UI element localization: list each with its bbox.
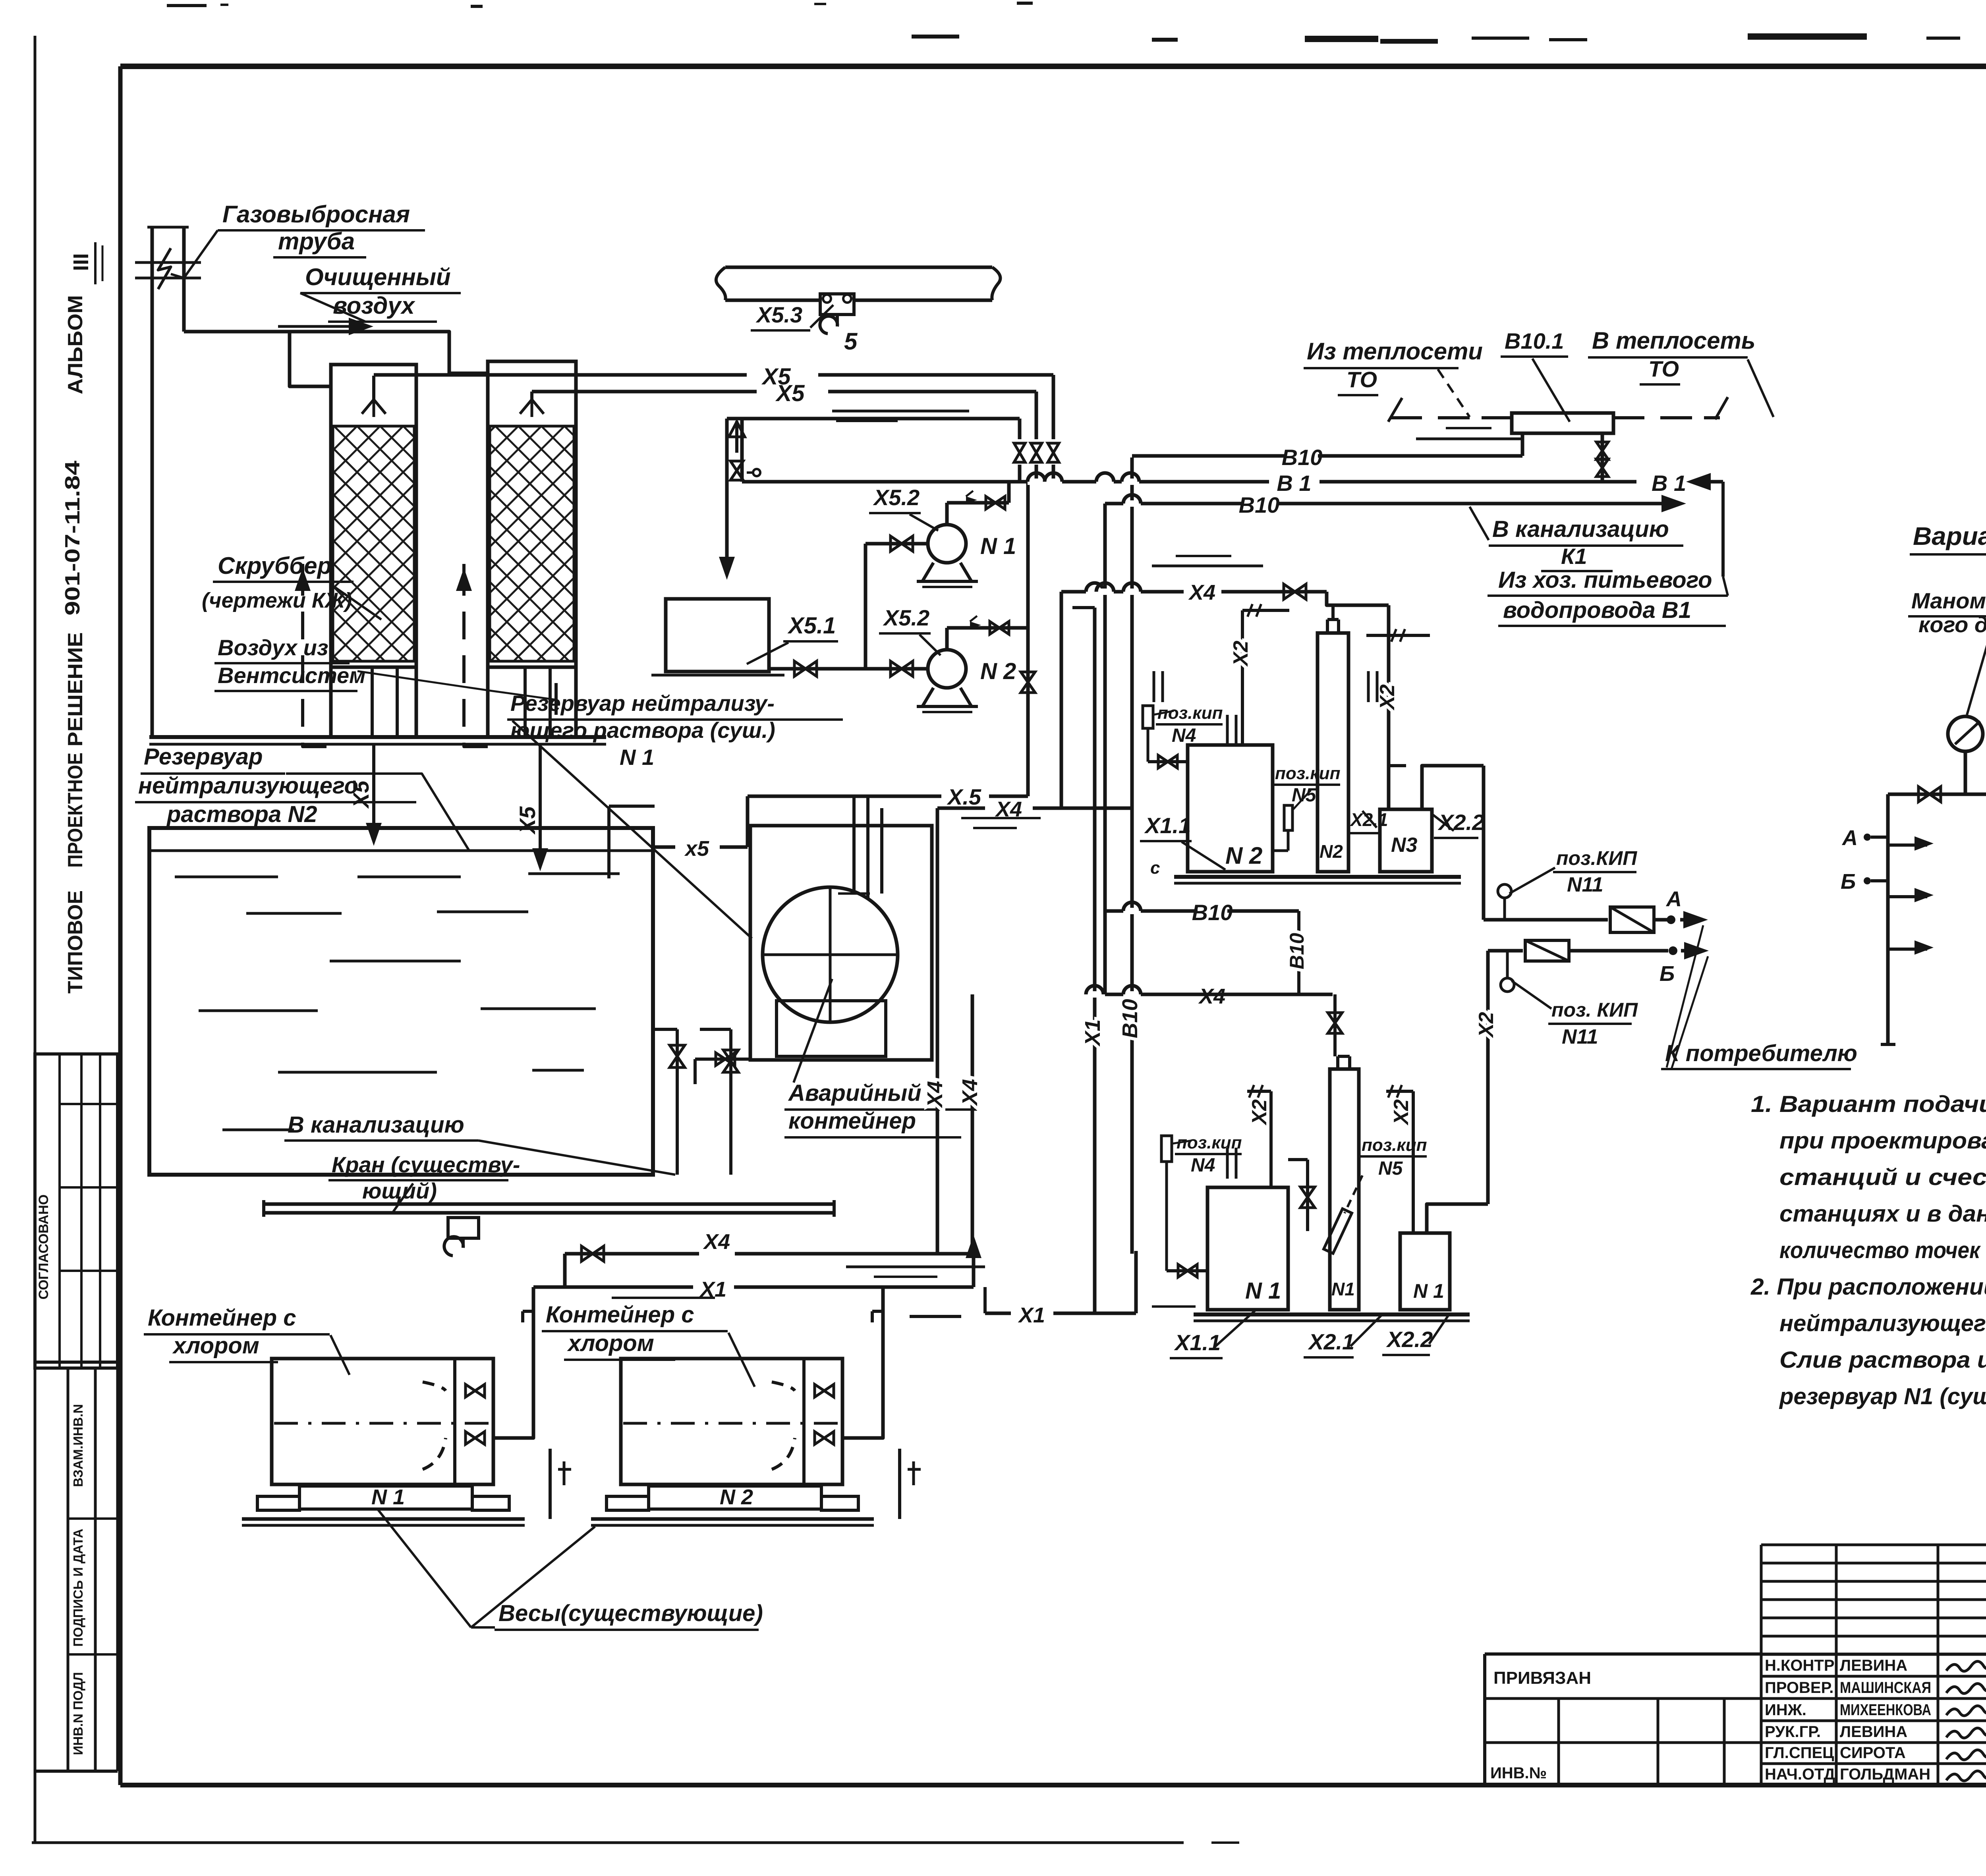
svg-text:Х2: Х2 bbox=[1229, 641, 1252, 667]
svg-text:Резервуар: Резервуар bbox=[144, 744, 263, 770]
svg-text:ТО: ТО bbox=[1648, 356, 1679, 381]
svg-text:N11: N11 bbox=[1562, 1025, 1598, 1048]
svg-text:Скруббер: Скруббер bbox=[218, 552, 332, 579]
svg-text:Х1: Х1 bbox=[1018, 1303, 1045, 1327]
svg-text:ТИПОВОЕ: ТИПОВОЕ bbox=[64, 890, 87, 994]
svg-text:В10: В10 bbox=[1282, 445, 1323, 470]
svg-text:901-07-11.84: 901-07-11.84 bbox=[61, 461, 84, 616]
svg-text:В10: В10 bbox=[1118, 999, 1142, 1038]
svg-text:Контейнер с: Контейнер с bbox=[148, 1305, 296, 1331]
svg-text:Х1.1: Х1.1 bbox=[1174, 1330, 1221, 1355]
svg-text:ИНЖ.: ИНЖ. bbox=[1765, 1701, 1806, 1719]
svg-text:5: 5 bbox=[844, 328, 858, 355]
svg-text:Слив раствора из скрубберов пр: Слив раствора из скрубберов производится… bbox=[1779, 1347, 1986, 1373]
svg-text:ГОЛЬДМАН: ГОЛЬДМАН bbox=[1840, 1766, 1930, 1783]
svg-text:с: с bbox=[1150, 858, 1160, 878]
svg-text:труба: труба bbox=[278, 228, 355, 255]
svg-text:поз. КИП: поз. КИП bbox=[1551, 999, 1638, 1021]
svg-text:Х5: Х5 bbox=[515, 806, 540, 835]
svg-text:поз.кип: поз.кип bbox=[1275, 764, 1341, 783]
svg-text:2. При расположении скрубберо: 2. При расположении скрубберов в здании … bbox=[1750, 1274, 1986, 1300]
svg-text:III: III bbox=[69, 253, 93, 271]
svg-text:поз.КИП: поз.КИП bbox=[1556, 847, 1637, 869]
svg-text:Аварийный: Аварийный bbox=[788, 1080, 922, 1106]
svg-text:В10: В10 bbox=[1192, 900, 1233, 925]
svg-text:раствора N2: раствора N2 bbox=[166, 801, 317, 827]
svg-text:Весы(существующие): Весы(существующие) bbox=[498, 1600, 763, 1626]
svg-text:N5: N5 bbox=[1292, 785, 1317, 806]
svg-text:Б: Б bbox=[1841, 870, 1856, 894]
svg-text:АЛЬБОМ: АЛЬБОМ bbox=[64, 295, 87, 394]
svg-text:ЛЕВИНА: ЛЕВИНА bbox=[1840, 1723, 1907, 1741]
svg-text:ВЗАМ.ИНВ.N: ВЗАМ.ИНВ.N bbox=[71, 1404, 85, 1487]
svg-text:N4: N4 bbox=[1172, 725, 1196, 746]
svg-text:Х5.1: Х5.1 bbox=[787, 613, 836, 639]
svg-text:количество точек ввода определ: количество точек ввода определяется при … bbox=[1779, 1237, 1986, 1263]
svg-text:Х2.2: Х2.2 bbox=[1386, 1327, 1433, 1352]
svg-text:ГЛ.СПЕЦ.: ГЛ.СПЕЦ. bbox=[1765, 1744, 1839, 1762]
svg-text:ПОДПИСЬ И ДАТА: ПОДПИСЬ И ДАТА bbox=[71, 1529, 85, 1646]
svg-text:хлором: хлором bbox=[172, 1333, 259, 1359]
svg-text:РУК.ГР.: РУК.ГР. bbox=[1765, 1723, 1821, 1741]
svg-text:N1: N1 bbox=[1331, 1279, 1355, 1299]
svg-text:воздух: воздух bbox=[333, 292, 415, 319]
svg-text:N4: N4 bbox=[1191, 1155, 1215, 1176]
svg-text:Б: Б bbox=[1660, 962, 1675, 986]
svg-text:N2: N2 bbox=[1319, 841, 1343, 862]
svg-text:Из хоз. питьевого: Из хоз. питьевого bbox=[1498, 567, 1712, 593]
svg-text:хлором: хлором bbox=[567, 1330, 654, 1356]
svg-text:Очищенный: Очищенный bbox=[305, 264, 451, 290]
svg-text:нейтрализующего: нейтрализующего bbox=[138, 773, 358, 799]
svg-text:ПРОЕКТНОЕ: ПРОЕКТНОЕ bbox=[64, 753, 87, 868]
svg-text:Контейнер с: Контейнер с bbox=[546, 1302, 694, 1328]
svg-text:Резервуар нейтрализу-: Резервуар нейтрализу- bbox=[510, 691, 775, 716]
svg-text:Х2: Х2 bbox=[1248, 1099, 1271, 1126]
svg-text:резервуар N1 (существующий).: резервуар N1 (существующий). bbox=[1779, 1384, 1986, 1409]
svg-text:В теплосеть: В теплосеть bbox=[1592, 327, 1755, 354]
svg-text:N 1: N 1 bbox=[620, 745, 654, 770]
svg-text:1. Вариант подачи хлора в точк: 1. Вариант подачи хлора в точке ввода пр… bbox=[1751, 1091, 1986, 1117]
svg-text:N 2: N 2 bbox=[980, 658, 1016, 684]
svg-text:Н.КОНТР: Н.КОНТР bbox=[1765, 1657, 1835, 1674]
svg-text:Из теплосети: Из теплосети bbox=[1307, 338, 1483, 365]
svg-text:Х4: Х4 bbox=[703, 1230, 730, 1254]
svg-text:ПРИВЯЗАН: ПРИВЯЗАН bbox=[1493, 1668, 1591, 1688]
svg-text:Х2: Х2 bbox=[1376, 684, 1399, 711]
svg-text:Вариант подачи хлора в точке в: Вариант подачи хлора в точке ввода bbox=[1913, 522, 1986, 550]
svg-text:Газовыбросная: Газовыбросная bbox=[222, 201, 410, 228]
svg-text:Х4: Х4 bbox=[923, 1081, 947, 1108]
svg-text:N3: N3 bbox=[1391, 834, 1418, 857]
svg-text:В10: В10 bbox=[1286, 933, 1308, 969]
svg-text:Х1: Х1 bbox=[1081, 1019, 1105, 1047]
svg-text:В10.1: В10.1 bbox=[1505, 328, 1564, 353]
svg-text:ИНВ.№: ИНВ.№ bbox=[1490, 1764, 1547, 1782]
svg-text:N 1: N 1 bbox=[1413, 1280, 1444, 1302]
svg-text:Х5.2: Х5.2 bbox=[873, 485, 920, 510]
svg-text:при проектировании производств: при проектировании производственных здан… bbox=[1779, 1128, 1986, 1154]
svg-text:К потребителю: К потребителю bbox=[1665, 1040, 1857, 1066]
svg-text:станций и счесителей воды с х: станций и счесителей воды с хлором на ка… bbox=[1779, 1164, 1986, 1190]
svg-text:N 1: N 1 bbox=[371, 1485, 405, 1509]
svg-text:N11: N11 bbox=[1567, 873, 1603, 896]
svg-text:В 1: В 1 bbox=[1652, 471, 1686, 496]
svg-text:Воздух из: Воздух из bbox=[218, 635, 328, 660]
svg-text:А: А bbox=[1841, 826, 1858, 850]
svg-text:Х4: Х4 bbox=[1198, 984, 1225, 1008]
svg-text:В канализацию: В канализацию bbox=[1492, 516, 1669, 542]
svg-text:нейтрализующего раствора N2 от: нейтрализующего раствора N2 отсутствует. bbox=[1779, 1310, 1986, 1336]
svg-text:В канализацию: В канализацию bbox=[288, 1112, 464, 1138]
svg-text:ющий): ющий) bbox=[362, 1178, 437, 1203]
svg-text:Х2: Х2 bbox=[1390, 1099, 1413, 1126]
svg-text:N 1: N 1 bbox=[1245, 1278, 1281, 1304]
svg-text:К1: К1 bbox=[1561, 544, 1587, 569]
svg-text:х5: х5 bbox=[684, 837, 709, 861]
svg-text:Х4: Х4 bbox=[1188, 581, 1215, 604]
svg-text:МАШИНСКАЯ: МАШИНСКАЯ bbox=[1840, 1679, 1931, 1697]
svg-text:ИНВ.N ПОДЛ: ИНВ.N ПОДЛ bbox=[71, 1672, 85, 1755]
svg-text:станциях и в данном проекте не: станциях и в данном проекте не разрабаты… bbox=[1779, 1201, 1986, 1227]
svg-text:РЕШЕНИЕ: РЕШЕНИЕ bbox=[64, 632, 87, 747]
svg-text:ПРОВЕР.: ПРОВЕР. bbox=[1765, 1679, 1833, 1697]
svg-text:N5: N5 bbox=[1378, 1158, 1403, 1179]
svg-text:НАЧ.ОТД: НАЧ.ОТД bbox=[1765, 1766, 1835, 1783]
svg-text:контейнер: контейнер bbox=[788, 1108, 916, 1134]
svg-text:ТО: ТО bbox=[1347, 367, 1377, 392]
svg-text:поз.кип: поз.кип bbox=[1362, 1135, 1427, 1155]
svg-text:ющего раствора (суш.): ющего раствора (суш.) bbox=[510, 718, 775, 743]
svg-text:кого давления: кого давления bbox=[1918, 612, 1986, 637]
svg-text:А: А bbox=[1665, 887, 1682, 911]
svg-text:Х2: Х2 bbox=[1475, 1012, 1498, 1038]
svg-text:Манометр низ-: Манометр низ- bbox=[1911, 588, 1986, 613]
svg-text:водопровода В1: водопровода В1 bbox=[1503, 597, 1691, 623]
svg-text:Х5.3: Х5.3 bbox=[755, 302, 802, 327]
svg-text:N 2: N 2 bbox=[1225, 842, 1262, 869]
svg-text:СОГЛАСОВАНО: СОГЛАСОВАНО bbox=[36, 1195, 51, 1300]
svg-text:Х5.2: Х5.2 bbox=[883, 605, 929, 630]
svg-text:поз.кип: поз.кип bbox=[1177, 1133, 1242, 1152]
svg-text:ЛЕВИНА: ЛЕВИНА bbox=[1840, 1657, 1907, 1674]
svg-text:N 2: N 2 bbox=[720, 1485, 753, 1509]
svg-text:В10: В10 bbox=[1239, 492, 1280, 517]
svg-text:Кран (существу-: Кран (существу- bbox=[332, 1152, 520, 1177]
svg-text:В 1: В 1 bbox=[1277, 471, 1311, 496]
svg-text:МИХЕЕНКОВА: МИХЕЕНКОВА bbox=[1840, 1701, 1931, 1719]
svg-text:Х.5: Х.5 bbox=[947, 784, 981, 809]
svg-text:N 1: N 1 bbox=[980, 533, 1016, 559]
svg-text:Х2.1: Х2.1 bbox=[1308, 1329, 1354, 1354]
svg-text:СИРОТА: СИРОТА bbox=[1840, 1744, 1906, 1762]
svg-text:Х4: Х4 bbox=[958, 1079, 982, 1106]
svg-text:Х5: Х5 bbox=[775, 380, 805, 406]
svg-text:Х1.1: Х1.1 bbox=[1144, 813, 1191, 838]
